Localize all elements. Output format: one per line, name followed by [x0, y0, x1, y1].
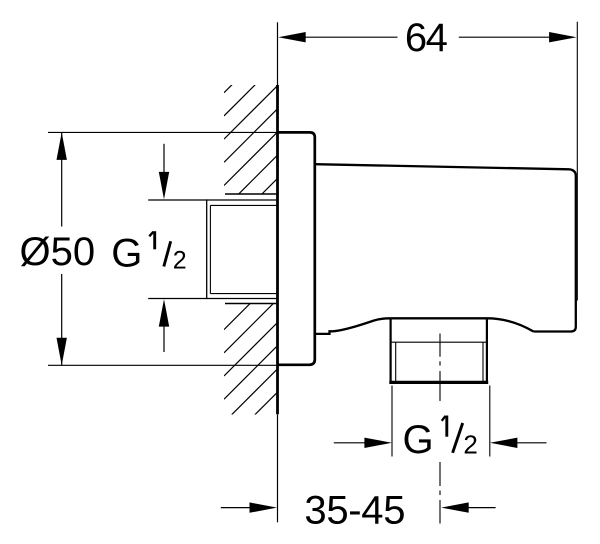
- svg-text:2: 2: [173, 246, 187, 274]
- outlet thread dim extension left: [391, 386, 393, 457]
- svg-text:2: 2: [463, 429, 477, 459]
- dim 35-45 arrow left: [221, 502, 277, 512]
- outlet thread minor left: [395, 342, 397, 381]
- inlet nipple thread minor top: [210, 204, 277, 206]
- inlet thread dim arrow down: [159, 144, 169, 200]
- dim 64 arrow right: [549, 32, 577, 42]
- wall hole boundary lower: [225, 303, 278, 305]
- wall face line thin top: [277, 22, 279, 85]
- svg-text:Ø50: Ø50: [20, 230, 96, 274]
- escutcheon flange outline: [278, 132, 315, 364]
- body bottom over outlet: [391, 317, 487, 319]
- dim D50 line lower: [61, 274, 63, 365]
- wall face line thick: [276, 85, 279, 414]
- wall hole boundary upper: [225, 193, 278, 195]
- wall hatch upper: [224, 39, 278, 255]
- outlet thread dim extension right: [489, 386, 491, 457]
- outlet thread dim arrow right: [490, 438, 547, 448]
- svg-text:35-45: 35-45: [304, 488, 405, 532]
- outlet center line dash-dot: [439, 334, 441, 524]
- dim 64 line right part: [459, 36, 550, 38]
- wall face line thin bottom: [277, 414, 279, 522]
- body outline top and right: [315, 164, 576, 331]
- dim D50 extension bottom: [48, 364, 278, 366]
- dim 64 line left part: [303, 36, 398, 38]
- outlet thread label slash: [453, 423, 463, 453]
- inlet nipple bottom extension line: [148, 298, 277, 300]
- inlet nipple left edge: [206, 199, 208, 299]
- inlet nipple top extension line: [148, 199, 277, 201]
- inlet thread label slash: [164, 241, 171, 266]
- dim D50 line upper: [61, 132, 63, 226]
- outlet connector left edge: [390, 318, 392, 383]
- outlet end face thick: [389, 381, 488, 384]
- dim D50 arrow down: [57, 338, 67, 366]
- dim 64 extension line right: [576, 22, 578, 301]
- outlet connector right edge: [486, 318, 488, 383]
- inlet nipple chamfer line: [209, 205, 211, 293]
- inlet nipple thread minor bottom: [210, 293, 277, 295]
- inlet thread dim arrow up: [159, 299, 169, 352]
- body bottom left curve with step: [315, 318, 391, 334]
- svg-text:G: G: [403, 418, 434, 462]
- dim 35-45 arrow right: [441, 502, 495, 512]
- outlet thread minor right: [482, 342, 484, 381]
- outlet thread label sup 1: [442, 416, 447, 437]
- dim 64 arrow left: [278, 32, 306, 42]
- dim D50 extension top: [48, 131, 278, 133]
- body bottom right curve: [487, 318, 534, 331]
- outlet thread dim arrow left: [334, 438, 392, 448]
- inlet thread label sup 1: [149, 231, 154, 249]
- dim D50 arrow up: [57, 132, 67, 160]
- wall hatch lower: [224, 276, 278, 469]
- outlet thread shoulder: [391, 341, 487, 343]
- svg-text:64: 64: [405, 16, 448, 60]
- svg-text:G: G: [111, 232, 142, 276]
